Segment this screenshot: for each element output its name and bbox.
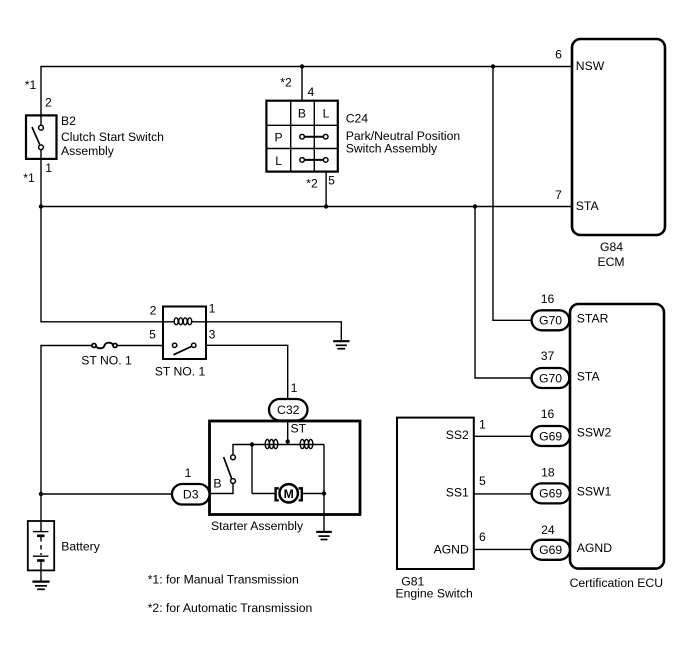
wire STA horizontal row: [41, 206, 571, 208]
wire coil row: [252, 444, 324, 446]
pin 2 label B2: [45, 96, 52, 110]
pin 1 label B2: [45, 161, 52, 175]
svg-text:STA: STA: [577, 370, 601, 384]
svg-text:Battery: Battery: [61, 540, 101, 554]
svg-text:5: 5: [149, 327, 156, 341]
label Switch Assembly: [346, 142, 438, 156]
svg-text:G69: G69: [539, 429, 562, 443]
wire to magnetic switch top: [233, 445, 252, 456]
svg-text:6: 6: [479, 530, 486, 544]
svg-text:1: 1: [209, 302, 216, 316]
label Battery: [61, 540, 101, 554]
svg-text:*1: for Manual Transmission: *1: for Manual Transmission: [148, 573, 299, 587]
svg-text:1: 1: [185, 466, 192, 480]
pin 3 label relay: [209, 328, 216, 342]
label G81: [401, 575, 424, 589]
wire left branch to motor row: [251, 445, 253, 494]
svg-text:*2: for Automatic Transmission: *2: for Automatic Transmission: [148, 601, 313, 615]
label SS2: [446, 428, 469, 442]
ECM box G84: [572, 39, 665, 235]
label *2 below C24: [306, 177, 318, 191]
pin 7 label ECM: [555, 188, 562, 202]
label ST terminal: [291, 422, 307, 436]
node junction top C24 branch: [300, 64, 304, 68]
pin 1 label C32: [291, 381, 298, 395]
label SS1: [446, 485, 469, 499]
wire ST drop inside starter: [287, 421, 289, 445]
svg-text:5: 5: [328, 174, 335, 188]
node junction C24 bottom on STA row: [324, 204, 328, 208]
pin 2 label relay: [150, 304, 157, 318]
svg-text:ST NO. 1: ST NO. 1: [81, 354, 132, 368]
wire battery to fuse: [41, 346, 92, 495]
relay ST NO.1 box: [163, 307, 206, 360]
svg-text:ST: ST: [291, 422, 307, 436]
label STA ECU: [577, 370, 601, 384]
label AGND ECU: [577, 541, 612, 555]
svg-text:2: 2: [150, 304, 157, 318]
clutch start switch B2: [26, 115, 57, 158]
svg-text:Engine Switch: Engine Switch: [396, 586, 473, 600]
svg-text:6: 6: [555, 48, 562, 62]
wire fuse to relay pin5: [117, 345, 163, 347]
connector G69 SSW2: [532, 426, 570, 446]
wire STA branch to G70 STA: [475, 207, 532, 379]
pin 24 label AGND: [541, 523, 555, 537]
svg-text:G69: G69: [539, 543, 562, 557]
label C24 designator: [346, 112, 369, 126]
connector G70 STAR: [532, 310, 570, 330]
label Clutch Start Switch: [61, 130, 164, 144]
wire SS2 to G69: [474, 435, 532, 437]
svg-text:C32: C32: [277, 403, 300, 417]
label STAR: [577, 312, 609, 326]
label AGND engine switch: [434, 543, 469, 557]
svg-text:Switch Assembly: Switch Assembly: [346, 142, 438, 156]
svg-text:P: P: [275, 131, 283, 145]
starter hold-in coil: [300, 439, 313, 448]
svg-text:AGND: AGND: [434, 543, 469, 557]
svg-text:D3: D3: [183, 487, 199, 501]
svg-text:*2: *2: [306, 177, 318, 191]
starter assembly box: [210, 421, 361, 515]
engine switch box G81: [397, 418, 474, 569]
pin 37 label STA: [541, 349, 555, 363]
park/neutral position switch C24: [266, 101, 337, 172]
label *2 above C24: [280, 76, 292, 90]
svg-text:*2: *2: [280, 76, 292, 90]
connector G69 SSW1: [532, 483, 570, 503]
svg-text:5: 5: [479, 474, 486, 488]
svg-text:*1: *1: [23, 171, 35, 185]
pin 16 label STAR: [541, 292, 555, 306]
wire right coil drop: [323, 445, 325, 494]
node junction left STA row: [39, 204, 43, 208]
label Assembly: [61, 144, 115, 158]
relay switch contact: [172, 343, 195, 355]
wire left vertical to relay coil: [41, 207, 163, 322]
label *1 above B2: [25, 78, 37, 92]
svg-text:16: 16: [541, 407, 555, 421]
svg-text:B: B: [298, 106, 306, 120]
label SSW2: [577, 426, 612, 440]
svg-text:STAR: STAR: [577, 312, 609, 326]
svg-text:Certification ECU: Certification ECU: [570, 576, 663, 590]
pin 5 label C24: [328, 174, 335, 188]
label ST NO. 1 fuse: [81, 354, 132, 368]
svg-text:SSW1: SSW1: [577, 484, 612, 498]
pin 18 label SSW1: [541, 466, 555, 480]
connector G69 AGND: [532, 540, 570, 560]
svg-text:24: 24: [541, 523, 555, 537]
svg-text:G69: G69: [539, 487, 562, 501]
ground battery: [32, 582, 49, 590]
label Certification ECU: [570, 576, 663, 590]
svg-text:ECM: ECM: [597, 255, 624, 269]
connector C32: [269, 399, 308, 421]
wire battery junction to D3: [41, 493, 172, 495]
wire NSW branch to G70 STAR: [493, 67, 532, 321]
note *1 manual transmission: [148, 573, 299, 587]
wire SS1 to G69: [474, 493, 532, 495]
svg-text:*1: *1: [25, 78, 37, 92]
svg-text:18: 18: [541, 466, 555, 480]
magnetic switch contact starter: [224, 455, 236, 484]
node junction battery row: [39, 492, 43, 496]
motor M starter: [276, 484, 302, 502]
node junction motor right: [322, 491, 326, 495]
starter pull-in coil: [265, 439, 278, 448]
svg-text:Starter Assembly: Starter Assembly: [211, 519, 304, 533]
ground relay coil: [333, 341, 349, 349]
svg-text:L: L: [275, 154, 282, 168]
label Starter Assembly: [211, 519, 304, 533]
label Engine Switch: [396, 586, 473, 600]
label NSW: [576, 59, 605, 73]
svg-text:AGND: AGND: [577, 541, 612, 555]
wire starter to ground: [323, 494, 325, 532]
svg-text:4: 4: [308, 85, 315, 99]
battery: [28, 521, 54, 581]
pin 16 label SSW2: [541, 407, 555, 421]
label ST NO. 1 relay: [155, 364, 206, 378]
svg-text:ST NO. 1: ST NO. 1: [155, 364, 206, 378]
node junction coils center: [286, 439, 290, 443]
label *1 below B2: [23, 171, 35, 185]
svg-text:NSW: NSW: [576, 59, 605, 73]
label STA ECM: [576, 199, 600, 213]
node junction coil left: [250, 442, 254, 446]
svg-text:G70: G70: [539, 371, 562, 385]
svg-text:16: 16: [541, 292, 555, 306]
wire relay coil to ground: [206, 322, 341, 341]
label ECM: [597, 255, 624, 269]
wire AGND to G69: [474, 548, 532, 550]
svg-text:1: 1: [45, 161, 52, 175]
pin 5 label SS1: [479, 474, 486, 488]
fuse ST NO.1: [92, 343, 117, 349]
label G84: [600, 240, 623, 254]
svg-text:SSW2: SSW2: [577, 426, 612, 440]
wire switch bottom to B row: [210, 483, 234, 493]
svg-text:C24: C24: [346, 112, 369, 126]
pin 1 label relay: [209, 302, 216, 316]
node junction top STAR branch: [491, 64, 495, 68]
pin 6 label AGND: [479, 530, 486, 544]
svg-text:G84: G84: [600, 240, 623, 254]
connector G70 STA: [532, 368, 570, 388]
svg-text:G70: G70: [539, 314, 562, 328]
pin 5 label relay: [149, 327, 156, 341]
certification ECU box: [570, 304, 664, 569]
note *2 automatic transmission: [148, 601, 313, 615]
svg-text:B: B: [213, 477, 221, 491]
wire junction to battery: [40, 494, 42, 532]
label B terminal: [213, 477, 221, 491]
svg-text:7: 7: [555, 188, 562, 202]
svg-text:1: 1: [291, 381, 298, 395]
wire B2 pin1 to STA row: [40, 150, 42, 207]
node junction STA branch down: [473, 204, 477, 208]
pin 1 label SS2: [479, 417, 486, 431]
svg-text:M: M: [284, 487, 294, 501]
svg-text:SS2: SS2: [446, 428, 469, 442]
svg-text:B2: B2: [61, 114, 76, 128]
relay coil: [163, 318, 206, 325]
ground starter: [316, 532, 332, 540]
wire C24 pin5 drop: [325, 172, 327, 207]
svg-text:Clutch Start Switch: Clutch Start Switch: [61, 130, 164, 144]
wire motor row left: [252, 493, 276, 495]
svg-text:STA: STA: [576, 199, 600, 213]
wire motor row right: [302, 493, 324, 495]
svg-text:2: 2: [45, 96, 52, 110]
svg-text:37: 37: [541, 349, 555, 363]
label SSW1: [577, 484, 612, 498]
svg-text:L: L: [323, 106, 330, 120]
wire top horizontal B+ to NSW: [41, 67, 571, 126]
svg-text:3: 3: [209, 328, 216, 342]
pin 4 label C24: [308, 85, 315, 99]
connector D3: [172, 484, 210, 505]
svg-text:Assembly: Assembly: [61, 144, 115, 158]
wire C24 pin4 drop: [301, 67, 303, 101]
label Park/Neutral Position: [346, 129, 460, 143]
pin 1 label D3: [185, 466, 192, 480]
svg-text:1: 1: [479, 417, 486, 431]
wire relay pin3 to C32: [206, 345, 288, 399]
contact P row C24: [300, 134, 328, 139]
label B2 designator: [61, 114, 76, 128]
pin 6 label ECM: [555, 48, 562, 62]
svg-text:SS1: SS1: [446, 485, 469, 499]
contact L row C24: [300, 158, 328, 163]
